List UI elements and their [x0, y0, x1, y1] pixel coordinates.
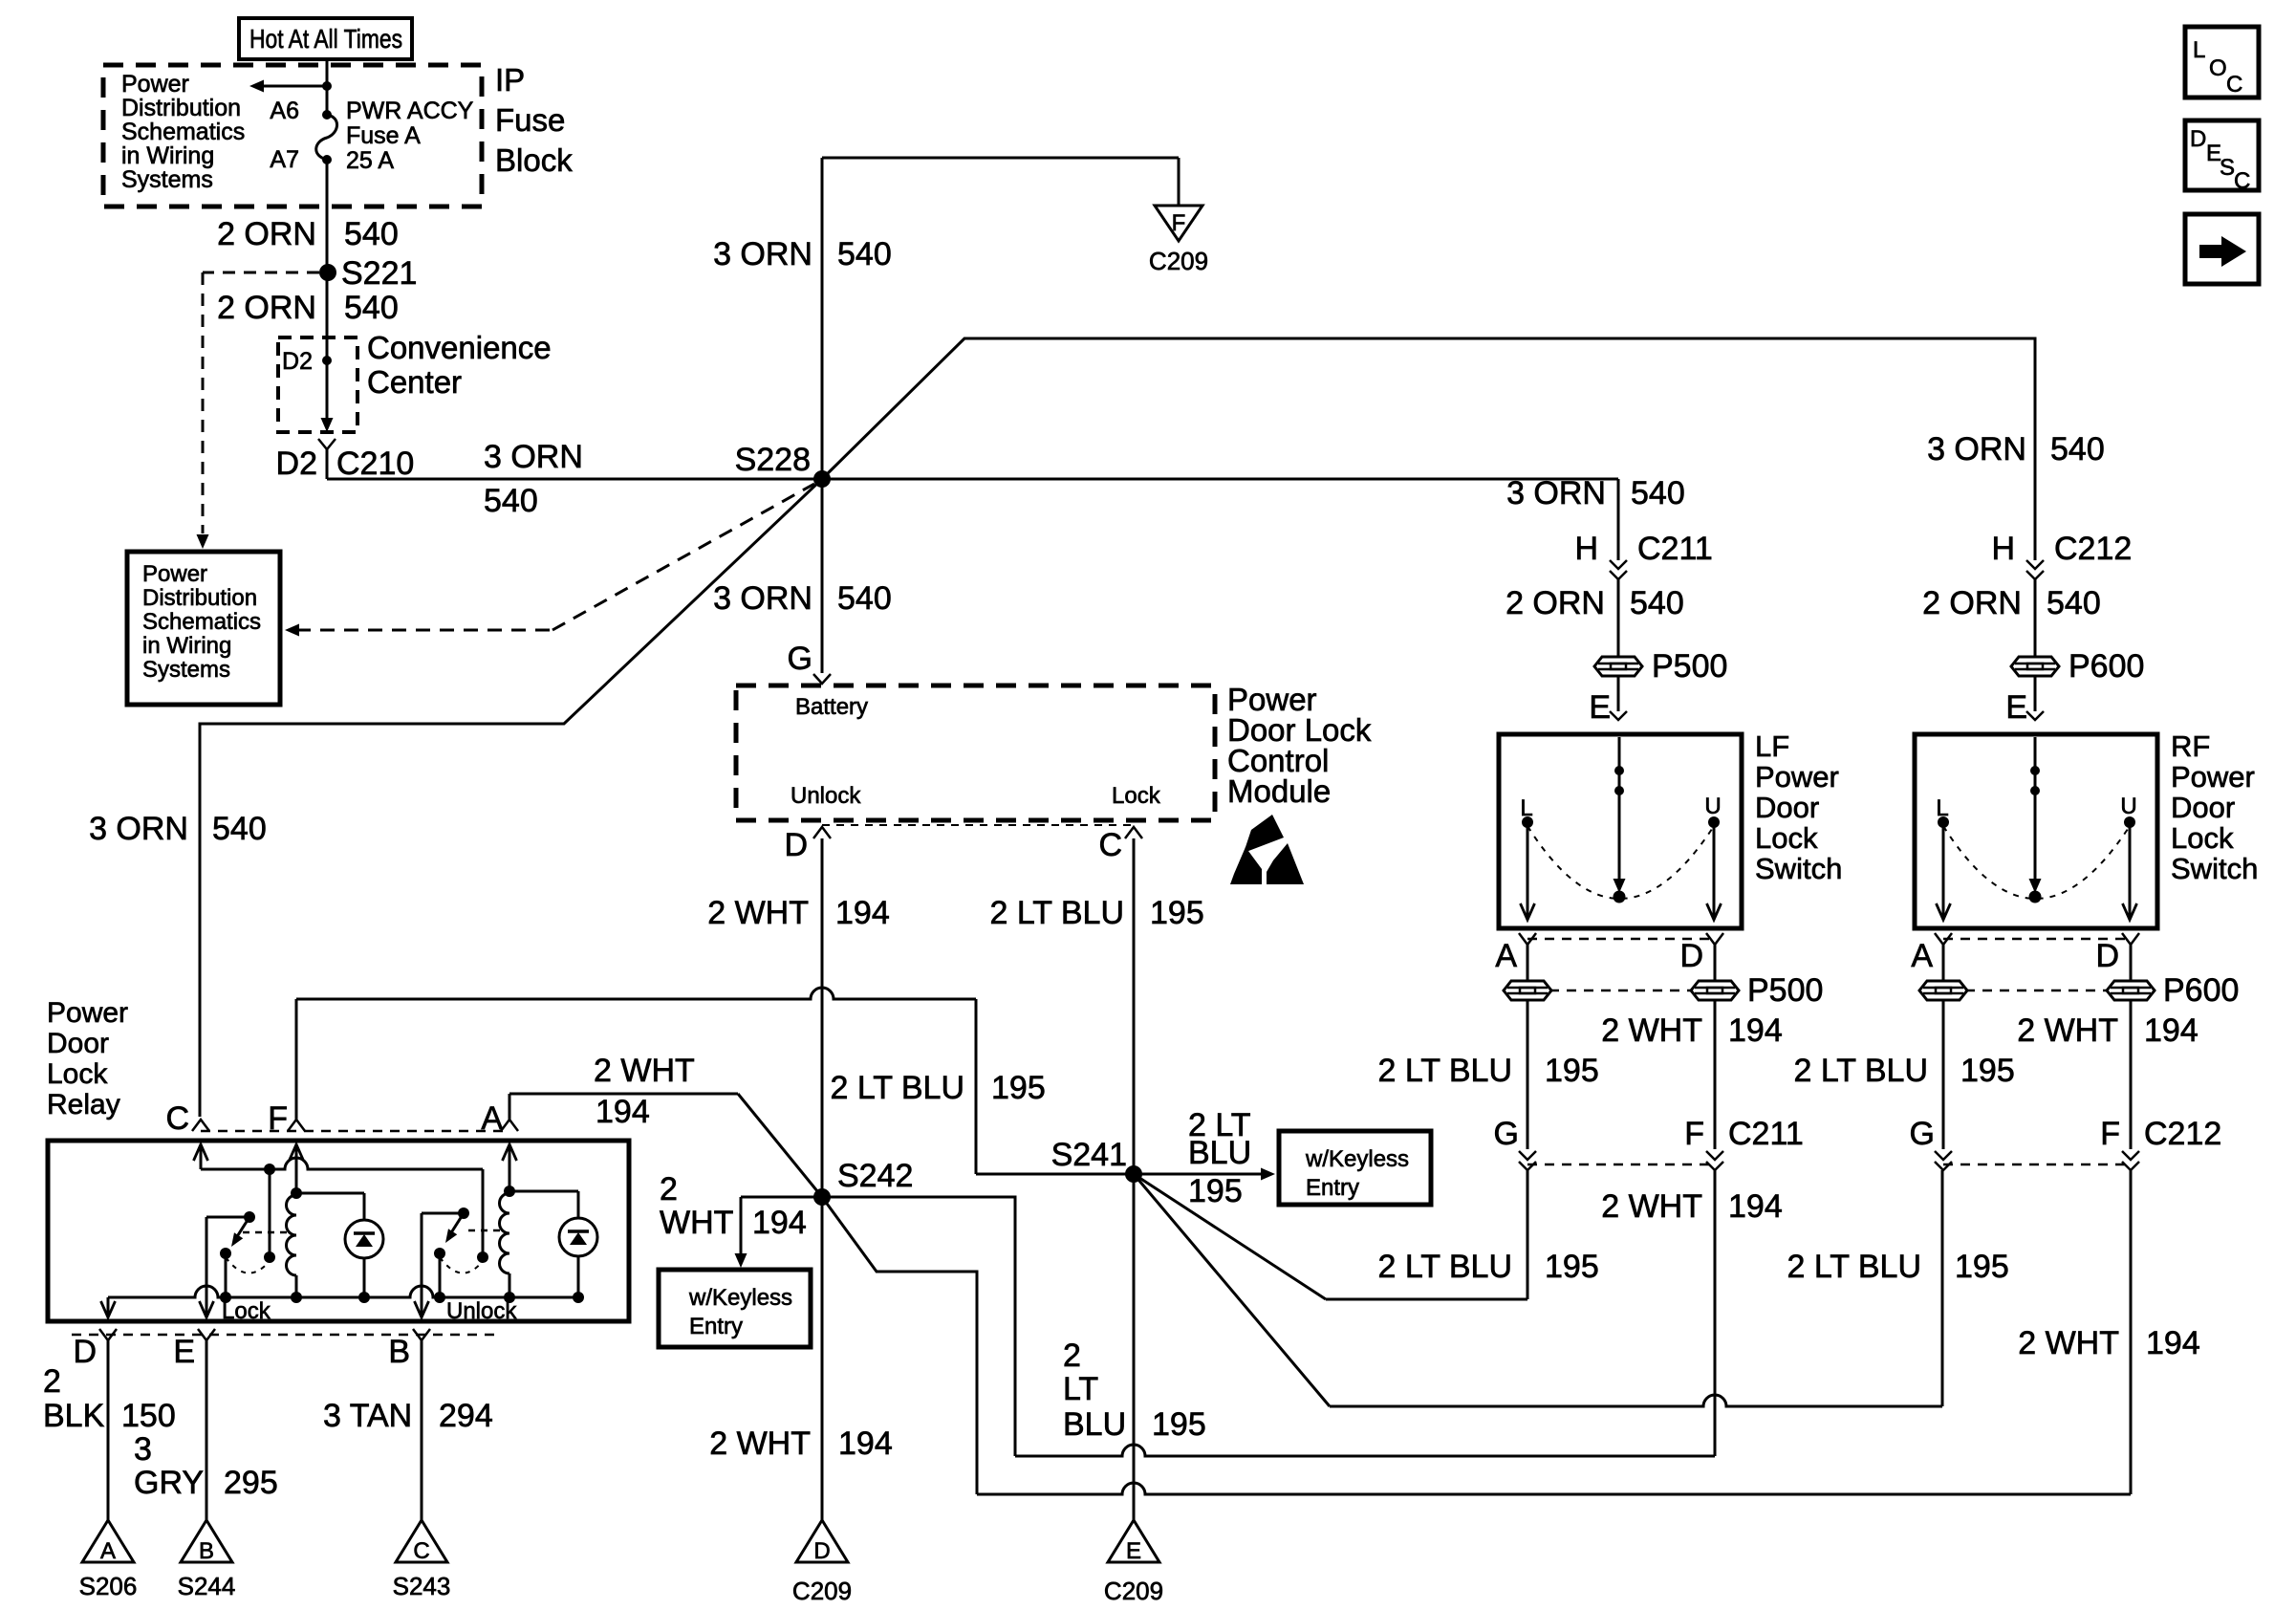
svg-text:C212: C212 [2144, 1116, 2221, 1152]
svg-text:2 WHT: 2 WHT [2017, 1012, 2118, 1049]
svg-text:540: 540 [837, 236, 892, 272]
svg-text:2 LT BLU: 2 LT BLU [990, 895, 1124, 931]
svg-text:Convenience: Convenience [367, 330, 552, 365]
svg-text:U: U [1704, 794, 1721, 819]
svg-text:Lock: Lock [222, 1298, 271, 1324]
svg-text:D: D [784, 827, 808, 863]
svg-text:2 WHT: 2 WHT [1601, 1012, 1702, 1049]
svg-text:E: E [1589, 689, 1611, 726]
svg-text:E: E [2005, 689, 2027, 726]
svg-text:S242: S242 [837, 1158, 913, 1194]
svg-text:2 ORN: 2 ORN [1505, 585, 1605, 621]
svg-text:Block: Block [495, 142, 573, 178]
svg-text:3 ORN: 3 ORN [713, 580, 812, 617]
svg-text:Entry: Entry [689, 1314, 743, 1339]
svg-text:C: C [413, 1538, 429, 1564]
svg-text:2 ORN: 2 ORN [1922, 585, 2022, 621]
svg-text:3 ORN: 3 ORN [89, 811, 188, 847]
svg-text:S243: S243 [393, 1572, 451, 1600]
svg-text:2: 2 [1063, 1338, 1081, 1374]
svg-text:Power: Power [142, 561, 207, 587]
svg-text:2 ORN: 2 ORN [217, 216, 316, 252]
svg-text:195: 195 [1545, 1053, 1599, 1089]
svg-text:BLK: BLK [43, 1398, 105, 1434]
svg-text:Unlock: Unlock [791, 783, 861, 809]
svg-text:2: 2 [660, 1171, 678, 1207]
svg-text:3 ORN: 3 ORN [713, 236, 812, 272]
svg-text:RF: RF [2171, 729, 2210, 763]
svg-text:Fuse: Fuse [495, 102, 565, 138]
svg-text:Lock: Lock [47, 1058, 108, 1090]
svg-text:540: 540 [212, 811, 267, 847]
svg-text:F: F [1684, 1116, 1704, 1152]
svg-text:540: 540 [1630, 585, 1684, 621]
svg-text:2 LT BLU: 2 LT BLU [1787, 1249, 1921, 1285]
svg-text:294: 294 [439, 1398, 493, 1434]
svg-text:F: F [2100, 1116, 2120, 1152]
svg-text:A7: A7 [270, 146, 299, 173]
svg-text:Relay: Relay [47, 1089, 120, 1120]
svg-text:Entry: Entry [1306, 1175, 1359, 1201]
svg-text:Power: Power [1755, 760, 1839, 794]
svg-text:194: 194 [838, 1425, 893, 1462]
svg-text:540: 540 [1631, 475, 1685, 511]
svg-text:C209: C209 [1104, 1577, 1163, 1605]
svg-text:194: 194 [2146, 1325, 2200, 1361]
svg-text:A: A [100, 1538, 116, 1564]
svg-text:L: L [2193, 37, 2205, 63]
svg-text:in Wiring: in Wiring [121, 142, 214, 169]
svg-text:G: G [1910, 1116, 1935, 1152]
svg-text:D2: D2 [276, 446, 317, 482]
svg-text:Distribution: Distribution [121, 95, 241, 121]
svg-text:540: 540 [837, 580, 892, 617]
svg-text:2 WHT: 2 WHT [709, 1425, 811, 1462]
svg-text:195: 195 [1188, 1173, 1243, 1209]
svg-text:G: G [1494, 1116, 1519, 1152]
svg-text:S221: S221 [341, 255, 417, 292]
svg-text:C: C [2234, 168, 2250, 194]
svg-text:Fuse A: Fuse A [346, 122, 421, 149]
svg-text:Door: Door [1755, 791, 1819, 824]
svg-text:D: D [1679, 938, 1703, 974]
svg-text:295: 295 [224, 1465, 278, 1501]
svg-text:w/Keyless: w/Keyless [1305, 1146, 1409, 1172]
svg-text:194: 194 [2144, 1012, 2199, 1049]
svg-text:D: D [2190, 126, 2206, 152]
svg-text:S241: S241 [1051, 1137, 1127, 1173]
svg-text:BLU: BLU [1188, 1135, 1251, 1171]
svg-text:Switch: Switch [2171, 852, 2258, 885]
svg-text:GRY: GRY [134, 1465, 204, 1501]
svg-text:2 WHT: 2 WHT [1601, 1188, 1702, 1225]
svg-text:H: H [1574, 531, 1598, 567]
svg-text:25 A: 25 A [346, 147, 394, 174]
svg-text:WHT: WHT [660, 1205, 733, 1241]
svg-text:Power: Power [121, 71, 189, 98]
svg-text:Distribution: Distribution [142, 585, 257, 611]
svg-text:B: B [388, 1334, 410, 1370]
svg-text:A: A [1911, 938, 1933, 974]
svg-text:2: 2 [43, 1363, 61, 1400]
svg-text:195: 195 [1545, 1249, 1599, 1285]
svg-text:2 WHT: 2 WHT [2018, 1325, 2119, 1361]
svg-text:P500: P500 [1747, 972, 1823, 1009]
svg-text:195: 195 [1955, 1249, 2009, 1285]
svg-text:540: 540 [344, 290, 399, 326]
svg-text:Battery: Battery [795, 694, 868, 720]
svg-text:150: 150 [121, 1398, 176, 1434]
svg-text:Power: Power [47, 997, 128, 1029]
svg-text:P500: P500 [1652, 648, 1727, 685]
svg-text:S228: S228 [735, 442, 811, 478]
svg-text:540: 540 [2050, 431, 2105, 468]
svg-text:D2: D2 [282, 348, 313, 375]
svg-text:C: C [1098, 827, 1122, 863]
svg-text:S: S [2220, 155, 2235, 181]
svg-text:Module: Module [1227, 773, 1331, 809]
svg-text:3 TAN: 3 TAN [323, 1398, 412, 1434]
svg-text:A6: A6 [270, 98, 299, 124]
svg-text:IP: IP [495, 62, 525, 98]
svg-text:E: E [1126, 1538, 1141, 1564]
svg-text:D: D [2095, 938, 2119, 974]
svg-text:U: U [2120, 794, 2136, 819]
svg-text:195: 195 [1150, 895, 1204, 931]
svg-text:PWR ACCY: PWR ACCY [346, 98, 474, 124]
svg-text:Lock: Lock [1112, 783, 1161, 809]
svg-text:Schematics: Schematics [121, 119, 245, 145]
svg-text:O: O [2209, 55, 2227, 81]
svg-text:S206: S206 [79, 1572, 138, 1600]
svg-text:B: B [199, 1538, 214, 1564]
svg-text:Lock: Lock [1755, 821, 1818, 855]
svg-text:194: 194 [596, 1094, 650, 1130]
svg-text:P600: P600 [2069, 648, 2144, 685]
svg-text:C212: C212 [2054, 531, 2132, 567]
svg-text:195: 195 [1960, 1053, 2015, 1089]
svg-text:2 WHT: 2 WHT [707, 895, 809, 931]
svg-text:194: 194 [752, 1205, 807, 1241]
svg-text:D: D [73, 1334, 97, 1370]
svg-text:3 ORN: 3 ORN [1927, 431, 2026, 468]
svg-text:540: 540 [344, 216, 399, 252]
svg-text:2 LT BLU: 2 LT BLU [1794, 1053, 1928, 1089]
svg-text:Power: Power [2171, 760, 2255, 794]
svg-text:P600: P600 [2163, 972, 2239, 1009]
svg-text:C211: C211 [1728, 1116, 1804, 1152]
svg-text:Schematics: Schematics [142, 609, 261, 635]
svg-text:3: 3 [134, 1431, 152, 1468]
svg-text:C211: C211 [1637, 531, 1713, 567]
svg-text:C209: C209 [792, 1577, 852, 1605]
svg-text:E: E [173, 1334, 195, 1370]
svg-text:Hot At All Times: Hot At All Times [249, 24, 402, 54]
svg-text:C: C [165, 1100, 189, 1137]
svg-text:LF: LF [1755, 729, 1789, 763]
svg-text:LT: LT [1063, 1371, 1098, 1407]
svg-text:3 ORN: 3 ORN [484, 439, 583, 475]
svg-text:Unlock: Unlock [446, 1298, 517, 1324]
svg-text:2 LT BLU: 2 LT BLU [1378, 1249, 1512, 1285]
svg-text:H: H [1991, 531, 2015, 567]
svg-text:BLU: BLU [1063, 1406, 1126, 1443]
svg-text:w/Keyless: w/Keyless [688, 1285, 792, 1311]
svg-text:194: 194 [1728, 1012, 1783, 1049]
svg-text:C210: C210 [336, 446, 414, 482]
svg-text:A: A [1495, 938, 1517, 974]
svg-text:2 LT BLU: 2 LT BLU [1378, 1053, 1512, 1089]
svg-text:540: 540 [2047, 585, 2101, 621]
svg-text:2 LT BLU: 2 LT BLU [831, 1070, 964, 1106]
svg-text:Systems: Systems [142, 657, 230, 683]
svg-text:D: D [813, 1538, 830, 1564]
svg-text:195: 195 [1152, 1406, 1206, 1443]
svg-text:S244: S244 [178, 1572, 236, 1600]
svg-text:Systems: Systems [121, 166, 213, 193]
svg-text:Center: Center [367, 364, 462, 400]
svg-text:Lock: Lock [2171, 821, 2234, 855]
svg-text:2 ORN: 2 ORN [217, 290, 316, 326]
svg-text:Switch: Switch [1755, 852, 1842, 885]
svg-text:in Wiring: in Wiring [142, 633, 231, 659]
svg-text:194: 194 [1728, 1188, 1783, 1225]
svg-text:G: G [788, 641, 812, 677]
svg-text:C: C [2226, 72, 2242, 98]
svg-text:194: 194 [835, 895, 890, 931]
svg-text:Door: Door [2171, 791, 2235, 824]
svg-text:3 ORN: 3 ORN [1506, 475, 1606, 511]
svg-text:195: 195 [991, 1070, 1046, 1106]
svg-text:540: 540 [484, 483, 538, 519]
svg-text:C209: C209 [1149, 247, 1208, 275]
svg-text:F: F [1172, 210, 1186, 236]
svg-text:Door: Door [47, 1028, 109, 1059]
svg-text:2 WHT: 2 WHT [594, 1053, 695, 1089]
